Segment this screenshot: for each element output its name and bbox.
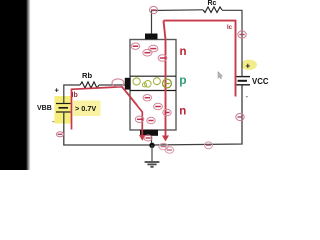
svg-text:Ib: Ib xyxy=(72,92,78,99)
hole p 2 xyxy=(145,81,152,88)
red current path through transistor xyxy=(164,21,166,137)
resistor Rc xyxy=(203,7,222,13)
electron n-top 3 xyxy=(149,45,158,52)
red arrowhead base current xyxy=(139,135,146,141)
highlight VBB battery yellow xyxy=(55,96,72,124)
wire base loop: VBB top to Rb xyxy=(64,85,80,104)
hole circle near base wire xyxy=(112,79,124,87)
svg-text:-: - xyxy=(246,92,249,101)
electron right of junction dot 1 xyxy=(159,143,168,149)
highlight >0.7V yellow box xyxy=(73,101,101,117)
hole p 4 with minus xyxy=(163,79,172,88)
electron on collector corner xyxy=(150,6,158,13)
svg-text:VCC: VCC xyxy=(252,77,269,86)
electron n-top 1 xyxy=(131,43,140,49)
emitter wire to rail xyxy=(151,136,153,145)
wire VCC top up to Rc xyxy=(222,10,242,76)
svg-text:+: + xyxy=(246,62,251,71)
red base diagonal second stroke xyxy=(126,92,137,106)
mouse cursor xyxy=(218,72,223,79)
svg-text:Rc: Rc xyxy=(208,0,217,7)
junction divider base-emitter xyxy=(130,90,176,92)
transistor block body xyxy=(130,40,176,131)
ground symbol xyxy=(145,162,160,167)
electron n-bottom 4 xyxy=(147,117,155,123)
base terminal bar xyxy=(125,78,131,90)
wire ground rail right half up to VCC xyxy=(152,86,242,146)
electron on VCC bottom wire xyxy=(236,113,244,120)
electron n-top 2 xyxy=(143,49,152,56)
collector terminal bar xyxy=(145,34,158,40)
hole p 1 xyxy=(133,78,140,85)
electron n-bottom 3 xyxy=(135,116,143,122)
electron below p region xyxy=(143,95,151,101)
hole p small xyxy=(142,83,146,87)
svg-text:> 0.7V: > 0.7V xyxy=(75,104,96,113)
wire VBB bottom to ground rail xyxy=(64,112,152,145)
svg-text:n: n xyxy=(179,106,186,118)
ground stem xyxy=(151,145,153,162)
svg-text:Rb: Rb xyxy=(82,71,92,80)
electron on VBB bottom wire xyxy=(56,132,63,137)
svg-text:n: n xyxy=(180,46,187,58)
electron n-bottom 1 xyxy=(154,103,163,109)
svg-text:+: + xyxy=(55,86,60,95)
electron right of junction dot 2 xyxy=(165,147,174,153)
svg-text:Ic: Ic xyxy=(227,25,233,31)
red current path Ic loop xyxy=(164,21,236,97)
electron on VCC top wire xyxy=(238,31,246,38)
svg-text:-: - xyxy=(52,117,55,126)
emitter terminal bar xyxy=(140,130,158,136)
battery VCC plates xyxy=(235,77,251,85)
red arrowhead collector current xyxy=(162,136,169,142)
junction dot xyxy=(149,143,154,148)
electron n-bottom 2 xyxy=(163,109,171,115)
wire Rb to base terminal xyxy=(99,84,126,86)
svg-text:p: p xyxy=(179,73,186,87)
svg-text:VBB: VBB xyxy=(37,105,52,112)
junction divider base-collector xyxy=(130,75,176,77)
electron n-top 4 xyxy=(158,55,167,62)
highlight VCC plus yellow blob xyxy=(241,60,257,70)
resistor Rb xyxy=(80,82,99,88)
electron on ground rail xyxy=(205,142,213,149)
battery VBB plates xyxy=(56,104,71,113)
hole p 3 xyxy=(153,78,160,85)
electron below emitter terminal xyxy=(144,135,152,141)
wire Rc to collector corner xyxy=(152,10,204,34)
red current path Ib xyxy=(72,87,143,136)
